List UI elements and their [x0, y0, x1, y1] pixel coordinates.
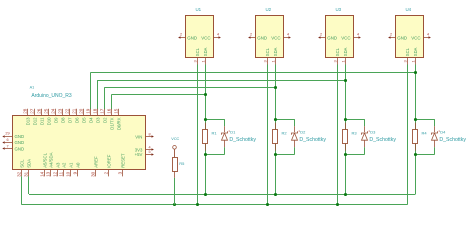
svg-text:D4: D4	[88, 117, 93, 123]
svg-text:25: 25	[44, 108, 49, 114]
pin 10 A1 bottom	[70, 169, 72, 176]
svg-text:IOREF: IOREF	[106, 154, 111, 168]
U3 pin 2 GND left	[321, 37, 326, 39]
svg-text:21: 21	[72, 108, 77, 114]
diode D3 D_Schottky	[362, 129, 397, 143]
svg-text:U3: U3	[336, 7, 342, 12]
svg-text:A0: A0	[75, 162, 80, 168]
svg-text:D_Schottky: D_Schottky	[229, 137, 256, 143]
svg-text:20: 20	[79, 108, 84, 114]
svg-text:23: 23	[58, 108, 63, 114]
svg-text:8: 8	[148, 133, 150, 137]
svg-text:2: 2	[180, 33, 182, 37]
svg-text:6: 6	[6, 138, 8, 142]
svg-text:29: 29	[5, 132, 9, 136]
svg-text:Arduino_UNO_R3: Arduino_UNO_R3	[31, 93, 72, 99]
MCU module A1 Arduino_UNO_R3	[13, 85, 146, 169]
U3 pin 4 VCC right	[354, 37, 359, 39]
svg-text:D11: D11	[39, 117, 44, 125]
svg-text:SDA: SDA	[343, 47, 348, 56]
svg-text:SCL: SCL	[195, 47, 200, 56]
wire U1 SDA drop	[205, 65, 207, 195]
pin 14 A5/SCL bottom	[44, 169, 46, 176]
svg-text:27: 27	[30, 108, 35, 114]
svg-text:SDA: SDA	[26, 159, 31, 168]
svg-text:D7: D7	[67, 117, 72, 123]
U1 pin 4 VCC right	[214, 37, 219, 39]
svg-text:GND: GND	[15, 134, 25, 139]
svg-text:R5: R5	[179, 161, 185, 166]
resistor R2 pins	[275, 123, 277, 130]
pin 3 RESET bottom	[122, 169, 124, 176]
svg-text:GND: GND	[257, 36, 267, 41]
svg-text:D3: D3	[370, 129, 376, 134]
svg-text:SDA: SDA	[273, 47, 278, 56]
junction U2 SDA / bus line	[274, 86, 277, 89]
junction U1 SDA / bus line	[204, 93, 207, 96]
wire R5 to SCL rail	[174, 171, 176, 178]
U2 pin 2 GND left	[251, 37, 256, 39]
pin 28 D13 top	[27, 109, 29, 116]
svg-text:GND: GND	[15, 147, 25, 152]
pin 27 D12 top	[34, 109, 36, 116]
svg-text:SCL: SCL	[265, 47, 270, 56]
svg-text:12: 12	[53, 171, 58, 177]
svg-text:D_Schottky: D_Schottky	[439, 137, 466, 143]
wire Arduino SDA to rail	[28, 176, 30, 194]
wire U2 SCL drop to SCL rail	[267, 65, 269, 205]
IC U4	[388, 7, 431, 63]
U2 bottom pin stubs	[267, 58, 269, 65]
svg-text:4: 4	[148, 145, 150, 149]
svg-text:D6: D6	[74, 117, 79, 123]
wire U2 SDA drop	[275, 65, 277, 195]
junctions on rails	[204, 193, 207, 196]
svg-text:D3: D3	[95, 117, 100, 123]
svg-text:A4/SDA: A4/SDA	[48, 152, 53, 167]
svg-text:D_Schottky: D_Schottky	[369, 137, 396, 143]
svg-text:30: 30	[91, 171, 96, 177]
svg-text:VCC: VCC	[201, 36, 210, 41]
wire diode branch	[416, 119, 435, 121]
svg-text:AREF: AREF	[93, 156, 98, 168]
IC U3	[318, 7, 361, 63]
U1 pin 2 GND left	[181, 37, 186, 39]
svg-text:15: 15	[114, 108, 119, 114]
junction R4 top	[414, 118, 417, 121]
svg-text:24: 24	[51, 108, 56, 114]
wire U4 SDA drop	[415, 65, 417, 195]
svg-text:4: 4	[357, 33, 359, 37]
svg-text:16: 16	[107, 108, 112, 114]
svg-text:SDA: SDA	[203, 47, 208, 56]
svg-text:+5V: +5V	[135, 152, 143, 157]
pin 31 SDA bottom	[28, 169, 30, 176]
wire U4 SCL drop to SCL rail	[407, 65, 409, 205]
resistor R5	[173, 158, 178, 172]
svg-text:32: 32	[17, 171, 22, 177]
svg-text:GND: GND	[15, 140, 25, 145]
pin 7 GND left	[5, 148, 12, 150]
svg-text:RESET: RESET	[120, 153, 125, 168]
svg-text:GND: GND	[327, 36, 337, 41]
junction R2 top	[274, 118, 277, 121]
pin 11 A2 bottom	[63, 169, 65, 176]
svg-text:11: 11	[59, 171, 64, 176]
svg-text:A1: A1	[68, 162, 73, 168]
resistor R3 pins	[345, 123, 347, 130]
pin 4 3V3 right	[145, 149, 152, 151]
pin 19 D4 top	[90, 109, 92, 116]
resistor R1 pins	[205, 123, 207, 130]
resistor R4	[413, 130, 418, 144]
pin 22 D7 top	[69, 109, 71, 116]
svg-text:A2: A2	[61, 162, 66, 168]
bus wire D-pin to U2 SDA	[104, 87, 275, 89]
pin 8 VIN right	[145, 136, 152, 138]
pin 16 D1/TX top	[111, 109, 113, 116]
svg-text:4: 4	[427, 33, 429, 37]
svg-text:R3: R3	[352, 131, 358, 136]
wire U1 SCL drop to SCL rail	[197, 65, 199, 205]
pin 32 SCL bottom	[21, 169, 23, 176]
svg-text:14: 14	[40, 171, 45, 177]
svg-text:17: 17	[100, 108, 105, 114]
svg-text:2: 2	[104, 171, 109, 174]
svg-text:D_Schottky: D_Schottky	[299, 137, 326, 143]
wire U3 SDA drop	[345, 65, 347, 195]
pin 15 D0/RX top	[118, 109, 120, 116]
wire Arduino SCL to rail	[21, 176, 23, 204]
svg-text:U2: U2	[266, 7, 272, 12]
junction U4 SDA / bus line	[414, 71, 417, 74]
svg-text:D4: D4	[440, 129, 446, 134]
wire SDA rail	[29, 194, 416, 196]
pin 12 A3 bottom	[57, 169, 59, 176]
pin 13 A4/SDA bottom	[50, 169, 52, 176]
svg-text:U1: U1	[196, 7, 202, 12]
svg-text:D8: D8	[60, 117, 65, 123]
U3 bottom pin stubs	[337, 58, 339, 65]
svg-text:A1: A1	[30, 85, 35, 89]
svg-text:VCC: VCC	[341, 36, 350, 41]
svg-text:A3: A3	[55, 162, 60, 168]
power flag VCC	[171, 137, 179, 158]
junction R2 bottom	[274, 153, 277, 156]
svg-text:4: 4	[217, 33, 219, 37]
svg-text:R1: R1	[212, 131, 218, 136]
svg-text:D13: D13	[25, 117, 30, 125]
svg-text:D1/TX: D1/TX	[109, 117, 114, 129]
U1 bottom pin stubs	[197, 58, 199, 65]
junction R3 top	[344, 118, 347, 121]
diode D4 D_Schottky	[432, 129, 467, 143]
pin 26 D11 top	[41, 109, 43, 116]
pin 9 A0 bottom	[77, 169, 79, 176]
svg-text:7: 7	[6, 144, 8, 148]
junction R1 top	[204, 118, 207, 121]
svg-text:VCC: VCC	[171, 137, 179, 141]
svg-text:R2: R2	[282, 131, 288, 136]
IC U1	[178, 7, 221, 63]
svg-text:D12: D12	[32, 117, 37, 125]
svg-text:R4: R4	[422, 131, 428, 136]
pin 30 AREF bottom	[95, 169, 97, 176]
svg-text:SCL: SCL	[405, 47, 410, 56]
pin 25 D10 top	[48, 109, 50, 116]
svg-text:4: 4	[287, 33, 289, 37]
svg-text:2: 2	[390, 33, 392, 37]
pin 18 D3 top	[97, 109, 99, 116]
svg-text:2: 2	[250, 33, 252, 37]
svg-text:D2: D2	[102, 117, 107, 123]
svg-text:10: 10	[66, 171, 71, 177]
svg-text:3: 3	[118, 171, 123, 174]
resistor R1	[203, 130, 208, 144]
pin 17 D2 top	[104, 109, 106, 116]
bus wire D-pin to U1 SDA	[111, 94, 205, 96]
wire diode branch	[206, 119, 225, 121]
wire diode branch	[276, 119, 295, 121]
wire diode branch	[346, 119, 365, 121]
pin 5 +5V right	[145, 154, 152, 156]
pin 20 D5 top	[83, 109, 85, 116]
svg-text:SCL: SCL	[19, 159, 24, 168]
svg-text:VCC: VCC	[411, 36, 420, 41]
svg-text:13: 13	[46, 171, 51, 177]
U4 pin 4 VCC right	[424, 37, 429, 39]
pin 29 GND left	[5, 136, 12, 138]
junction R1 bottom	[204, 153, 207, 156]
resistor R3	[343, 130, 348, 144]
svg-text:U4: U4	[406, 7, 412, 12]
svg-text:GND: GND	[187, 36, 197, 41]
junction U3 SDA / bus line	[344, 79, 347, 82]
svg-text:D10: D10	[46, 117, 51, 125]
svg-text:D2: D2	[300, 129, 306, 134]
svg-text:19: 19	[86, 108, 91, 114]
diode D2 D_Schottky	[292, 129, 327, 143]
svg-text:5: 5	[148, 150, 150, 154]
svg-text:31: 31	[24, 171, 29, 177]
svg-text:VCC: VCC	[271, 36, 280, 41]
svg-text:D9: D9	[53, 117, 58, 123]
svg-text:SDA: SDA	[413, 47, 418, 56]
bus wire D-pin to U4 SDA	[90, 72, 415, 74]
svg-text:28: 28	[23, 108, 28, 114]
diode D1 D_Schottky	[222, 129, 257, 143]
pin 24 D9 top	[55, 109, 57, 116]
wire U3 SCL drop to SCL rail	[337, 65, 339, 205]
pin 2 IOREF bottom	[108, 169, 110, 176]
IC U2	[248, 7, 291, 63]
svg-text:2: 2	[320, 33, 322, 37]
svg-text:9: 9	[73, 171, 78, 174]
svg-text:GND: GND	[397, 36, 407, 41]
wire SCL rail	[22, 204, 408, 206]
junction R4 bottom	[414, 153, 417, 156]
svg-text:D0/RX: D0/RX	[116, 117, 121, 130]
svg-text:D5: D5	[81, 117, 86, 123]
U2 pin 4 VCC right	[284, 37, 289, 39]
svg-text:VIN: VIN	[135, 135, 142, 140]
U4 pin 2 GND left	[391, 37, 396, 39]
resistor R2	[273, 130, 278, 144]
svg-text:18: 18	[93, 108, 98, 114]
pin 23 D8 top	[62, 109, 64, 116]
junction R3 bottom	[344, 153, 347, 156]
resistor R4 pins	[415, 123, 417, 130]
U4 bottom pin stubs	[407, 58, 409, 65]
bus wire D-pin to U3 SDA	[97, 80, 345, 82]
pin 21 D6 top	[76, 109, 78, 116]
pin 6 GND left	[5, 142, 12, 144]
svg-text:A5/SCL: A5/SCL	[42, 152, 47, 167]
svg-text:SCL: SCL	[335, 47, 340, 56]
svg-text:D1: D1	[230, 129, 236, 134]
svg-text:22: 22	[65, 108, 70, 114]
svg-text:26: 26	[37, 108, 42, 114]
